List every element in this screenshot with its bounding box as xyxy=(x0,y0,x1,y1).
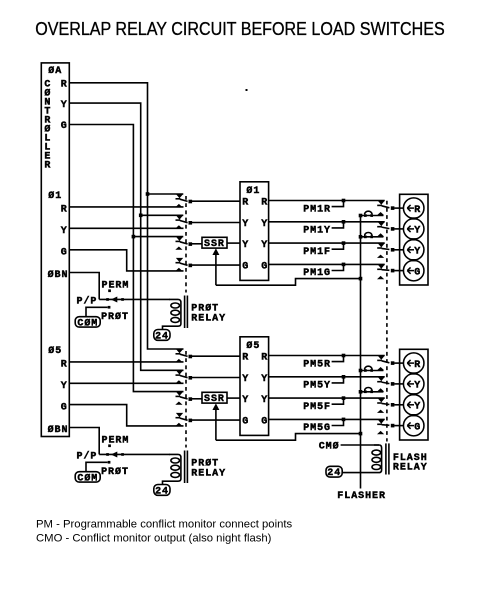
node PERM (bottom) xyxy=(102,436,130,448)
svg-text:24: 24 xyxy=(327,468,341,479)
node PM5G tap xyxy=(303,418,345,435)
legend line 1 xyxy=(36,518,293,530)
svg-text:Y: Y xyxy=(414,247,421,258)
signal head field terminals overlap A xyxy=(400,194,428,285)
wire overlap output PM1F xyxy=(269,242,385,244)
terminal 24V flash xyxy=(326,466,342,479)
label P/P select (bottom) xyxy=(77,451,98,463)
svg-text:CMO - Conflict monitor output: CMO - Conflict monitor output (also nigh… xyxy=(36,533,272,545)
svg-text:ØBN: ØBN xyxy=(48,424,69,436)
wire to field terminal R bottom xyxy=(394,362,403,364)
label phase A heading xyxy=(48,65,62,77)
jumper link PM5R to flasher bus xyxy=(359,366,384,372)
svg-text:Ø1: Ø1 xyxy=(48,190,62,202)
node PROT (bottom) xyxy=(101,461,129,478)
svg-text:R: R xyxy=(61,205,68,216)
svg-text:24: 24 xyxy=(155,487,169,498)
relay contact K3-4 (flash transfer) xyxy=(377,264,394,279)
wire phase 1 red output xyxy=(69,206,183,208)
svg-text:G: G xyxy=(414,267,421,278)
svg-text:R: R xyxy=(61,80,68,91)
protect relay coil K1 xyxy=(163,299,181,329)
wire overlap output PM1R xyxy=(269,200,385,202)
svg-text:PM1Y: PM1Y xyxy=(303,226,331,237)
label PROT RELAY (top) xyxy=(191,303,226,325)
svg-text:ØBN: ØBN xyxy=(48,269,69,281)
wire overlap output PM1G xyxy=(269,263,385,265)
plug P/P select (top) xyxy=(106,297,124,303)
wire overlap output PM5G xyxy=(269,418,385,420)
relay contact K2-3 (overlap A select) xyxy=(175,392,192,405)
controller pin label R (phase A) xyxy=(61,80,68,91)
wire phase A green output xyxy=(69,125,183,392)
controller pin label R (phase 1) xyxy=(61,205,68,216)
wire contact pole to overlap box 5 G pin xyxy=(192,419,240,421)
relay contact K3-3 (flash transfer) xyxy=(377,243,394,258)
svg-text:G: G xyxy=(414,422,421,433)
wire to field terminal Y bottom xyxy=(394,383,403,385)
svg-text:PM5Y: PM5Y xyxy=(303,381,331,392)
controller pin label R (phase 5) xyxy=(61,360,68,371)
svg-text:PM1F: PM1F xyxy=(303,247,331,258)
title text xyxy=(35,19,445,39)
SSR U3 box xyxy=(202,392,227,405)
wire overlap output PM5R xyxy=(269,355,385,357)
relay contact K1-2 (overlap A select) xyxy=(175,215,192,228)
wire phase A red output xyxy=(69,83,183,349)
mechanical link K3 flash relay (dashed) xyxy=(386,201,388,442)
plug P/P select (bottom) xyxy=(106,452,124,458)
protect relay coil K2 xyxy=(163,454,181,484)
svg-text:CMØ: CMØ xyxy=(319,440,340,452)
svg-text:RELAY: RELAY xyxy=(191,313,226,324)
svg-text:R: R xyxy=(414,360,421,371)
svg-text:R: R xyxy=(414,205,421,216)
jumper link PM1R to flasher bus xyxy=(359,211,384,217)
wire SSR U2 output to overlap box Y pin xyxy=(227,242,240,244)
wire contact pole to overlap box 1 G pin xyxy=(192,264,240,266)
svg-text:SSR: SSR xyxy=(204,239,225,250)
wire to field terminal G bottom xyxy=(394,425,403,427)
flash relay coil K3 xyxy=(342,445,382,473)
svg-text:G: G xyxy=(261,417,268,428)
wire phase 1 green output xyxy=(69,250,183,271)
overlap relay box &#216;1 xyxy=(240,182,269,281)
svg-text:Y: Y xyxy=(414,402,421,413)
wire contact pole to SSR input (1) xyxy=(192,243,202,245)
terminal COM (top) xyxy=(75,307,107,329)
svg-text:R: R xyxy=(44,161,51,172)
controller pin label phase B neutral (top) xyxy=(48,269,69,281)
node PM1G tap xyxy=(303,263,345,280)
signal head field terminals overlap A flash side xyxy=(400,349,428,440)
svg-text:PM5G: PM5G xyxy=(303,423,331,434)
svg-text:PERM: PERM xyxy=(102,281,130,292)
jumper link PM1Y to flasher bus xyxy=(359,233,384,239)
relay contact K3-7 (flash transfer) xyxy=(377,398,394,413)
svg-text:Y: Y xyxy=(242,395,249,406)
wire SSR U2 control from flasher bus xyxy=(216,277,362,285)
label phase 1 heading xyxy=(48,190,62,202)
wire phase 5 yellow output xyxy=(69,382,183,384)
relay contact K3-2 (flash transfer) xyxy=(377,222,394,237)
controller pin label G (phase 1) xyxy=(61,247,68,258)
SSR U2 control input arrow xyxy=(212,248,219,285)
wire phase A yellow output xyxy=(69,103,183,370)
svg-text:PM5F: PM5F xyxy=(303,402,331,413)
terminal COM (bottom) xyxy=(75,462,107,484)
controller pin label Y (phase 5) xyxy=(61,381,68,392)
wire overlap output PM1Y xyxy=(269,221,385,223)
jumper link PM5Y to flasher bus xyxy=(359,388,384,394)
svg-text:Y: Y xyxy=(414,381,421,392)
node PM1R tap xyxy=(303,199,345,216)
overlap relay box &#216;5 xyxy=(240,337,269,436)
svg-text:Y: Y xyxy=(261,219,268,230)
terminal 24V (bottom) xyxy=(154,485,170,498)
svg-text:R: R xyxy=(61,360,68,371)
node CMO conflict monitor output xyxy=(319,440,379,452)
svg-text:CØM: CØM xyxy=(77,318,98,330)
controller pin label phase B neutral (bottom) xyxy=(48,424,69,436)
relay contact K3-5 (flash transfer) xyxy=(377,356,394,371)
svg-text:G: G xyxy=(261,262,268,273)
svg-text:G: G xyxy=(61,121,68,132)
legend line 2 xyxy=(36,533,272,545)
wire SSR U3 output to overlap box Y pin xyxy=(227,397,240,399)
node PM5R tap xyxy=(303,354,345,371)
controller pin label G (phase A) xyxy=(61,121,68,132)
svg-text:SSR: SSR xyxy=(204,394,225,405)
label P/P select (top) xyxy=(77,296,98,308)
node PM5Y tap xyxy=(303,375,345,392)
svg-text:CØM: CØM xyxy=(77,473,98,485)
wire to field terminal R top xyxy=(394,207,403,209)
relay contact K3-8 (flash transfer) xyxy=(377,419,394,434)
svg-text:PM1G: PM1G xyxy=(303,268,331,279)
svg-text:FLASHER: FLASHER xyxy=(337,491,386,502)
svg-text:Ø1: Ø1 xyxy=(246,185,260,197)
svg-text:Y: Y xyxy=(261,395,268,406)
svg-text:R: R xyxy=(261,198,268,209)
terminal 24V (top) xyxy=(154,330,170,343)
svg-text:PM5R: PM5R xyxy=(303,359,331,370)
wire overlap output PM5Y xyxy=(269,376,385,378)
wire to field terminal Y top xyxy=(394,228,403,230)
relay contact K2-4 (overlap A select) xyxy=(175,413,192,426)
node junction phase A red to contact 1 xyxy=(146,192,184,196)
wire contact pole to overlap box 1 R pin xyxy=(192,200,240,202)
wire phase B neutral (bottom) xyxy=(69,428,99,455)
svg-text:P/P: P/P xyxy=(77,451,98,463)
controller pin label Y (phase A) xyxy=(61,100,68,111)
wire overlap output PM5F xyxy=(269,397,385,399)
svg-text:P/P: P/P xyxy=(77,296,98,308)
node PM1Y tap xyxy=(303,220,345,237)
svg-text:Y: Y xyxy=(61,100,68,111)
relay contact K2-2 (overlap A select) xyxy=(175,370,192,383)
node PM1F tap xyxy=(303,241,345,258)
flasher bus wire xyxy=(360,216,362,489)
mechanical link K1 (dashed) xyxy=(185,196,187,293)
label phase 5 heading xyxy=(48,345,62,357)
node junction phase A green to contact 3 xyxy=(132,235,184,239)
relay contact K1-1 (overlap A select) xyxy=(175,194,192,207)
label FLASH RELAY xyxy=(393,453,428,474)
svg-text:Y: Y xyxy=(242,240,249,251)
svg-text:R: R xyxy=(242,353,249,364)
node PROT (top) xyxy=(101,306,129,323)
relay contact K2-1 (overlap A select) xyxy=(175,349,192,362)
stray dot artifact xyxy=(246,89,248,91)
svg-text:PM - Programmable conflict mon: PM - Programmable conflict monitor conne… xyxy=(36,518,293,530)
wire phase 5 red output xyxy=(69,361,183,363)
relay contact K1-4 (overlap A select) xyxy=(175,258,192,271)
relay contact K3-1 (flash transfer) xyxy=(377,201,394,216)
svg-text:PERM: PERM xyxy=(102,436,130,447)
label PROT RELAY (bottom) xyxy=(191,458,226,480)
relay contact K3-6 (flash transfer) xyxy=(377,377,394,392)
svg-text:G: G xyxy=(242,262,249,273)
wire P/P to protect relay coil (top) xyxy=(99,298,170,300)
svg-text:G: G xyxy=(61,247,68,258)
wire contact pole to overlap box 1 Y pin xyxy=(192,222,240,224)
svg-text:PRØT: PRØT xyxy=(101,466,129,478)
controller pin label Y (phase 1) xyxy=(61,226,68,237)
svg-text:Y: Y xyxy=(61,381,68,392)
svg-text:RELAY: RELAY xyxy=(191,468,226,479)
svg-text:PRØT: PRØT xyxy=(101,311,129,323)
svg-text:Y: Y xyxy=(414,226,421,237)
svg-text:Y: Y xyxy=(261,374,268,385)
svg-text:Y: Y xyxy=(261,240,268,251)
wire contact pole to overlap box 5 Y pin xyxy=(192,377,240,379)
flash relay core xyxy=(386,443,389,474)
label CONTROLLER xyxy=(44,80,51,172)
svg-text:Ø5: Ø5 xyxy=(246,340,260,352)
svg-text:R: R xyxy=(242,198,249,209)
svg-text:RELAY: RELAY xyxy=(393,462,428,473)
svg-text:PM1R: PM1R xyxy=(303,204,331,215)
wire phase 5 green output xyxy=(69,405,183,426)
svg-text:Ø5: Ø5 xyxy=(48,345,62,357)
wire to field terminal G top xyxy=(394,270,403,272)
wire to field terminal Y2 bottom xyxy=(394,404,403,406)
SSR U3 control input arrow xyxy=(212,403,219,440)
svg-text:G: G xyxy=(242,417,249,428)
svg-text:Y: Y xyxy=(242,374,249,385)
mechanical link K2 (dashed) xyxy=(185,351,187,448)
svg-text:R: R xyxy=(261,353,268,364)
wire P/P to protect relay coil (bottom) xyxy=(99,453,170,455)
node PERM (top) xyxy=(102,281,130,293)
svg-text:ØA: ØA xyxy=(48,65,62,77)
wire phase B neutral (top) xyxy=(69,273,99,300)
controller U1 box xyxy=(41,63,69,437)
label FLASHER xyxy=(337,491,386,502)
svg-text:OVERLAP RELAY CIRCUIT BEFORE L: OVERLAP RELAY CIRCUIT BEFORE LOAD SWITCH… xyxy=(35,19,445,39)
protect relay core (bottom) xyxy=(185,451,188,484)
wire contact pole to SSR input (5) xyxy=(192,398,202,400)
node junction phase A yellow to contact 2 xyxy=(139,214,183,218)
controller pin label G (phase 5) xyxy=(61,402,68,413)
svg-text:G: G xyxy=(61,402,68,413)
protect relay core (top) xyxy=(185,296,188,329)
node PM5F tap xyxy=(303,396,345,413)
wire SSR U3 control from flasher bus xyxy=(216,432,362,440)
wire to field terminal Y2 top xyxy=(394,249,403,251)
SSR U2 box xyxy=(202,237,227,250)
wire contact pole to overlap box 5 R pin xyxy=(192,355,240,357)
wire phase 1 yellow output xyxy=(69,227,183,229)
svg-text:Y: Y xyxy=(61,226,68,237)
svg-text:24: 24 xyxy=(155,332,169,343)
svg-text:Y: Y xyxy=(242,219,249,230)
relay contact K1-3 (overlap A select) xyxy=(175,237,192,250)
